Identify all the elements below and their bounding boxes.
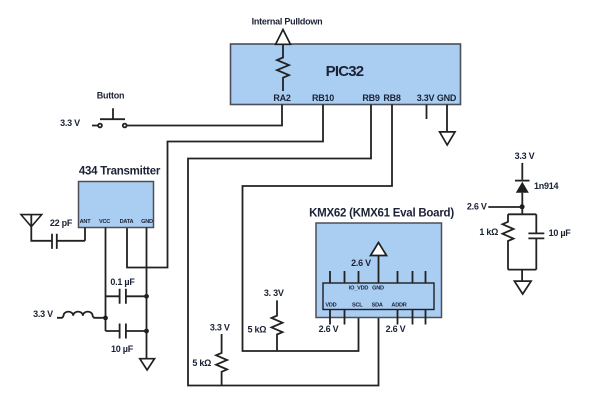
svg-text:3.3 V: 3.3 V xyxy=(515,151,535,161)
node 10uF/GND xyxy=(144,329,149,334)
wire 2.6V xyxy=(488,206,520,208)
svg-text:RB8: RB8 xyxy=(383,93,400,103)
svg-text:KMX62 (KMX61 Eval Board): KMX62 (KMX61 Eval Board) xyxy=(309,208,454,220)
wire VCC rail xyxy=(105,228,107,332)
diode 1n914 xyxy=(515,180,530,182)
resistor 5k SDA pullup xyxy=(216,334,227,386)
wire RB10 to DATA xyxy=(127,105,323,268)
svg-text:3. 3V: 3. 3V xyxy=(264,288,284,298)
svg-text:RB9: RB9 xyxy=(362,93,379,103)
svg-text:3.3V: 3.3V xyxy=(417,93,435,103)
pushbutton xyxy=(92,108,125,125)
wire RB8 to SCL xyxy=(243,105,393,352)
node VCC/L junction xyxy=(103,316,108,321)
capacitor 22pF xyxy=(52,228,85,249)
internal pulldown resistor xyxy=(277,44,289,91)
KMX62 bottom pins xyxy=(330,310,426,325)
svg-text:VCC: VCC xyxy=(99,219,110,225)
svg-text:GND: GND xyxy=(372,285,384,291)
svg-text:ANT: ANT xyxy=(80,219,92,225)
KMX62 top pins xyxy=(330,271,426,283)
svg-text:1 kΩ: 1 kΩ xyxy=(479,227,498,237)
wire RA2 to button xyxy=(127,105,282,126)
svg-text:ADDR: ADDR xyxy=(391,302,406,308)
svg-text:5 kΩ: 5 kΩ xyxy=(248,324,267,334)
resistor 5k SCL pullup xyxy=(272,300,283,351)
wire GND pin PIC32 xyxy=(446,105,448,132)
GND arrow (KMX62) xyxy=(371,243,387,256)
svg-text:GND: GND xyxy=(141,219,153,225)
svg-text:0.1 µF: 0.1 µF xyxy=(110,277,135,287)
svg-text:GND: GND xyxy=(437,93,457,103)
ground (PIC32) xyxy=(440,132,455,145)
wire GND rail transmitter xyxy=(146,228,148,359)
wire RB9 to SDA xyxy=(188,105,379,386)
svg-text:2.6 V: 2.6 V xyxy=(351,258,371,268)
KMX62 eval board body xyxy=(316,223,442,318)
svg-text:1n914: 1n914 xyxy=(534,181,559,191)
svg-text:3.3 V: 3.3 V xyxy=(33,309,53,319)
svg-text:Button: Button xyxy=(97,91,125,101)
svg-text:DATA: DATA xyxy=(120,219,134,225)
svg-text:5 kΩ: 5 kΩ xyxy=(192,358,211,368)
capacitor 10uF xyxy=(106,324,147,339)
svg-text:10 µF: 10 µF xyxy=(549,228,572,238)
PIC32 U1 body xyxy=(231,44,461,105)
svg-text:RA2: RA2 xyxy=(273,93,290,103)
svg-text:SDA: SDA xyxy=(372,302,383,308)
svg-text:VDD: VDD xyxy=(325,302,336,308)
node diode/2.6V xyxy=(520,204,525,209)
internal pulldown arrow xyxy=(276,30,291,45)
svg-text:SCL: SCL xyxy=(352,302,363,308)
capacitor 0.1uF xyxy=(106,289,147,304)
svg-text:2.6 V: 2.6 V xyxy=(319,324,339,334)
inductor xyxy=(57,312,106,318)
svg-text:3.3 V: 3.3 V xyxy=(210,323,230,333)
svg-text:PIC32: PIC32 xyxy=(326,63,364,80)
3.3V pin stub under PIC32 xyxy=(426,105,428,120)
resistor 1k xyxy=(503,214,514,269)
svg-text:RB10: RB10 xyxy=(312,93,334,103)
svg-text:3.3 V: 3.3 V xyxy=(60,118,80,128)
svg-text:10 µF: 10 µF xyxy=(111,344,134,354)
KMX62 inner IC xyxy=(323,283,434,310)
node 0.1uF/GND xyxy=(144,294,149,299)
RC loop rails xyxy=(508,214,536,269)
ground (transmitter) xyxy=(140,359,155,370)
svg-text:2.6 V: 2.6 V xyxy=(386,324,406,334)
ground (right) xyxy=(514,281,531,294)
3.3V rail diode branch xyxy=(521,163,523,180)
434 transmitter body xyxy=(79,182,154,228)
svg-text:IO_VDD: IO_VDD xyxy=(349,285,369,291)
svg-text:434 Transmitter: 434 Transmitter xyxy=(79,166,161,178)
antenna xyxy=(21,215,42,227)
svg-text:22 pF: 22 pF xyxy=(50,218,73,228)
svg-text:Internal Pulldown: Internal Pulldown xyxy=(252,17,323,27)
svg-text:2.6 V: 2.6 V xyxy=(467,202,487,212)
KMX62 GND pin arrow wire xyxy=(378,256,380,284)
wire to ground right xyxy=(521,270,523,282)
capacitor 10uF (right) xyxy=(528,214,544,269)
